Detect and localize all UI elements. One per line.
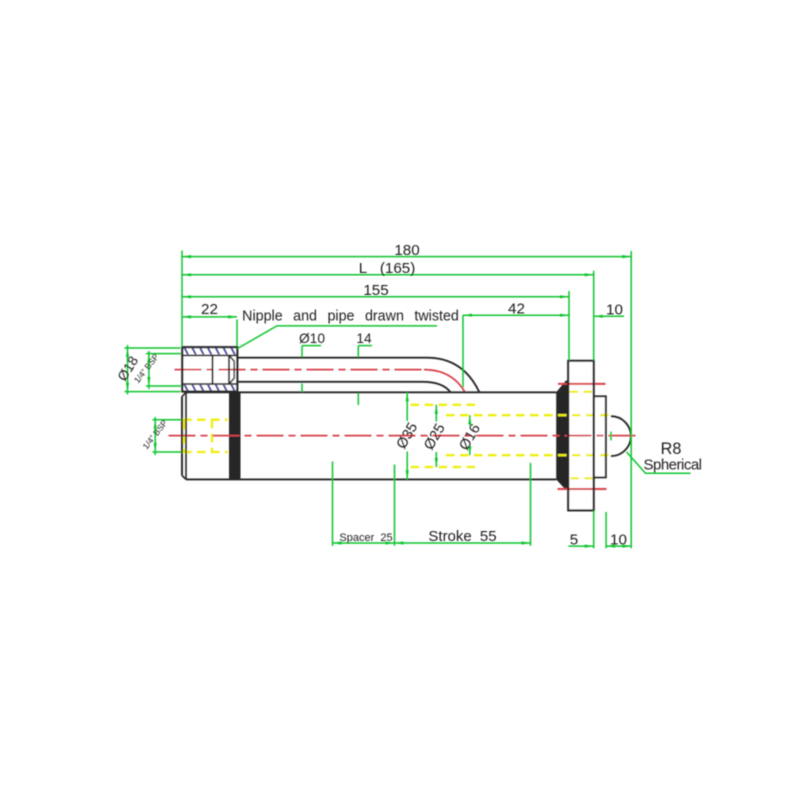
dim 10 top right xyxy=(594,315,624,317)
bottom extension lines xyxy=(332,462,334,546)
dim D16 (rotated) xyxy=(469,415,471,425)
dim 1/4 BSP nipple (rotated) xyxy=(146,353,181,355)
dim Stroke 55 xyxy=(395,542,531,544)
dim 5 xyxy=(568,545,593,547)
dim 22 xyxy=(182,316,237,318)
flange hole center line top xyxy=(558,383,606,385)
flange plate outline xyxy=(568,361,594,511)
nipple hatch bottom band xyxy=(176,383,236,392)
center line: nipple/pipe axis xyxy=(175,369,425,371)
svg-text:10: 10 xyxy=(606,302,623,319)
hidden cylinder OD through flange (yellow) xyxy=(570,391,594,393)
svg-text:Stroke 55: Stroke 55 xyxy=(428,528,496,545)
gland cone (black) at rod end xyxy=(556,381,568,490)
cylinder body outline xyxy=(186,391,556,393)
leader: Nipple and pipe drawn twisted xyxy=(238,326,438,349)
sphere center tick xyxy=(610,432,612,441)
dim 42 xyxy=(463,314,569,316)
nipple body fill xyxy=(182,347,237,391)
dim 1/4 BSP port (rotated) xyxy=(153,419,182,421)
dim D25 (rotated) xyxy=(435,405,437,422)
svg-text:Spacer 25: Spacer 25 xyxy=(339,532,392,544)
leader 14 xyxy=(358,345,372,347)
piston/weld thick band xyxy=(229,392,241,479)
rod guide boss outline xyxy=(594,396,606,477)
leader R8 Spherical xyxy=(627,452,691,473)
dim 10 bottom xyxy=(606,545,631,547)
svg-text:5: 5 xyxy=(570,531,578,548)
svg-text:155: 155 xyxy=(363,282,388,299)
nipple body outline xyxy=(182,347,237,391)
dim 180 xyxy=(182,256,631,258)
pipe from nipple, bends into cylinder xyxy=(237,357,427,359)
svg-text:42: 42 xyxy=(508,300,525,317)
svg-text:180: 180 xyxy=(394,242,419,259)
dim D18 (rotated) xyxy=(125,347,181,349)
svg-text:10: 10 xyxy=(610,531,627,548)
rod guide boss fill xyxy=(594,396,606,477)
hidden port 1/4 BSP in cylinder (yellow dashed box) xyxy=(183,419,228,421)
svg-text:22: 22 xyxy=(201,301,218,318)
dim L (165) xyxy=(182,274,594,276)
svg-text:Ø10: Ø10 xyxy=(299,331,325,346)
svg-text:14: 14 xyxy=(356,331,372,346)
hidden bore D25 (yellow) xyxy=(411,404,478,406)
flange plate fill xyxy=(568,361,594,511)
dim 155 xyxy=(182,296,569,298)
center line: main cylinder axis xyxy=(169,435,637,437)
spherical rod end R8 xyxy=(611,416,631,456)
flange hole center line bottom xyxy=(558,488,607,490)
svg-text:L (165): L (165) xyxy=(359,260,416,277)
leader D10 xyxy=(302,345,321,347)
dim Spacer 25 xyxy=(333,542,395,544)
svg-text:Spherical: Spherical xyxy=(643,456,701,473)
extension lines, top dims xyxy=(181,251,183,347)
dim D35 (rotated) xyxy=(406,392,408,421)
hidden rod D16 (yellow) xyxy=(446,414,611,416)
nipple hatch top band xyxy=(176,347,236,356)
svg-text:Nipple and pipe drawn twisted: Nipple and pipe drawn twisted xyxy=(242,309,459,325)
